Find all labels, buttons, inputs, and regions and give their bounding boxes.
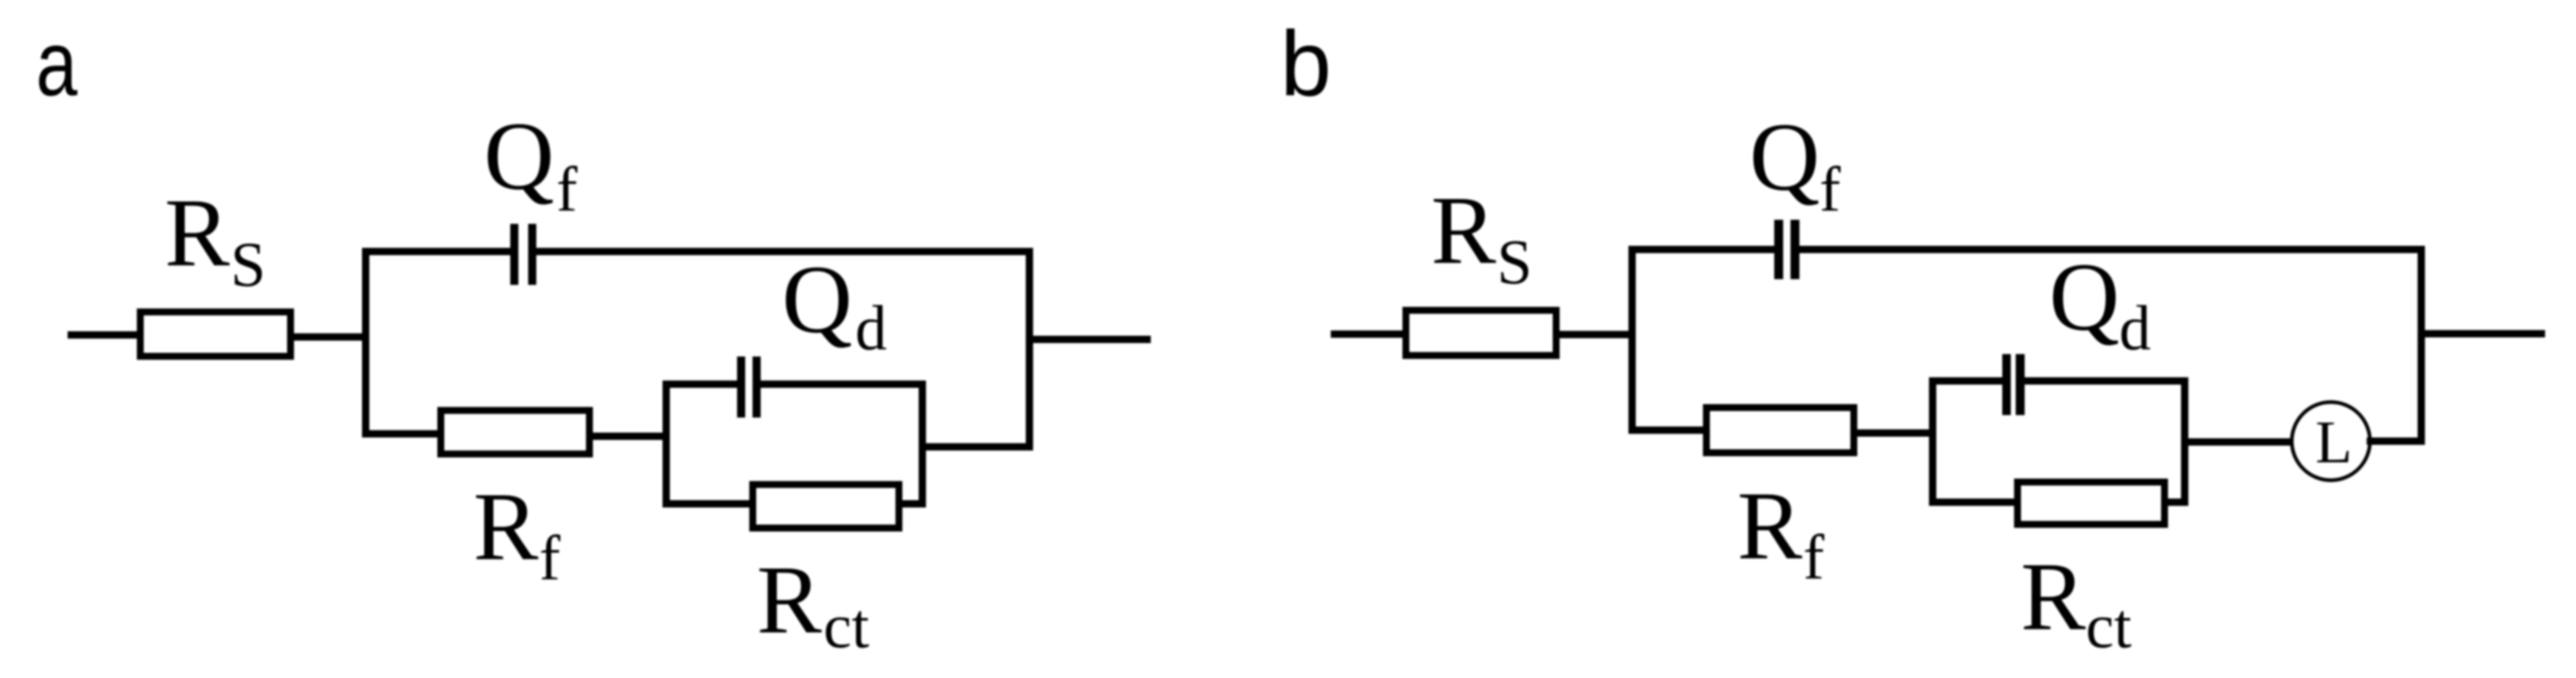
- wire inner cell bottom edge (panel b): [1929, 499, 2189, 506]
- svg-text:R: R: [1737, 471, 1802, 580]
- svg-text:ct: ct: [2086, 590, 2132, 661]
- panel label a: [36, 12, 77, 115]
- label Qf (panel b): [1749, 103, 1841, 225]
- wire inner cell bottom edge (panel a): [663, 501, 927, 508]
- wire inner cell top edge right segment (panel a): [761, 381, 927, 388]
- wire top branch right segment (panel b): [1800, 246, 2425, 253]
- label Rf (panel b): [1737, 471, 1824, 593]
- wire Rf to inner cell (panel a): [589, 433, 670, 440]
- capacitor Qf CPE (panel b): [1775, 220, 1800, 279]
- label RS (panel a): [165, 178, 265, 300]
- label Rct (panel b): [2021, 542, 2132, 661]
- capacitor Qd CPE (panel a): [737, 356, 761, 418]
- wire inner cell exit (panel a): [919, 444, 1033, 451]
- wire input terminal (panel a): [68, 331, 140, 339]
- wire RS to node (panel b): [1556, 331, 1636, 339]
- svg-text:f: f: [556, 154, 577, 225]
- label L inductor (panel b): [2315, 409, 2352, 476]
- svg-text:f: f: [1819, 154, 1841, 225]
- svg-text:Q: Q: [782, 245, 853, 353]
- panel label b: [1280, 12, 1332, 115]
- svg-text:R: R: [165, 178, 230, 287]
- svg-text:d: d: [855, 292, 887, 363]
- capacitor Qd CPE (panel b): [2003, 354, 2025, 415]
- label Qf (panel a): [484, 102, 577, 225]
- svg-text:d: d: [2119, 292, 2151, 363]
- svg-text:a: a: [36, 12, 77, 115]
- wire inner cell right vertical (panel b): [2181, 378, 2188, 506]
- wire left vertical branch node (panel b): [1629, 246, 1636, 434]
- svg-text:Q: Q: [1749, 103, 1820, 211]
- resistor RS (panel b): [1406, 310, 1556, 356]
- wire bottom branch from node (panel b): [1629, 426, 1707, 434]
- svg-text:S: S: [1497, 226, 1532, 297]
- wire top branch left segment (panel a): [362, 248, 511, 256]
- wire RS to node (panel a): [291, 334, 369, 341]
- svg-text:R: R: [757, 545, 822, 654]
- svg-text:ct: ct: [823, 590, 870, 661]
- svg-text:R: R: [2021, 542, 2086, 650]
- wire Rf to inner cell (panel b): [1854, 430, 1937, 437]
- wire inductor to right vertical (panel b): [2367, 438, 2425, 445]
- resistor RS (panel a): [140, 312, 291, 356]
- wire output terminal (panel a): [1029, 336, 1151, 343]
- wire inner cell top edge left segment (panel b): [1929, 378, 2003, 385]
- inductor L circle (panel b): [2292, 402, 2370, 480]
- label Qd (panel a): [782, 245, 887, 363]
- wire inner cell right vertical (panel a): [919, 381, 926, 508]
- wire top branch right segment (panel a): [537, 248, 1033, 256]
- wire inner cell top edge left segment (panel a): [663, 381, 738, 388]
- label Qd (panel b): [2049, 243, 2151, 363]
- svg-text:L: L: [2315, 409, 2352, 476]
- label Rf (panel a): [473, 472, 560, 593]
- svg-text:Q: Q: [484, 102, 555, 210]
- wire bottom branch from node (panel a): [362, 431, 441, 438]
- wire output terminal (panel b): [2421, 330, 2545, 338]
- svg-text:Q: Q: [2049, 243, 2120, 351]
- wire inner cell top edge right segment (panel b): [2025, 378, 2188, 385]
- wire top branch left segment (panel b): [1629, 246, 1775, 253]
- svg-text:f: f: [1803, 522, 1824, 593]
- label RS (panel b): [1431, 176, 1532, 297]
- capacitor Qf CPE (panel a): [511, 224, 537, 285]
- wire inner cell left vertical (panel b): [1929, 378, 1937, 506]
- wire right vertical branch node (panel b): [2418, 246, 2425, 445]
- wire inner cell left vertical (panel a): [663, 381, 670, 508]
- svg-text:f: f: [539, 523, 560, 593]
- wire inner cell exit to inductor (panel b): [2188, 439, 2295, 446]
- wire left vertical branch node (panel a): [362, 248, 370, 438]
- svg-text:R: R: [473, 472, 538, 580]
- resistor Rf (panel a): [441, 410, 590, 454]
- label Rct (panel a): [757, 545, 870, 661]
- wire input terminal (panel b): [1331, 330, 1406, 338]
- wire right vertical branch node (panel a): [1026, 248, 1033, 451]
- svg-text:R: R: [1431, 176, 1496, 284]
- resistor Rf (panel b): [1706, 408, 1854, 453]
- resistor Rct (panel b): [2017, 482, 2165, 524]
- svg-text:b: b: [1280, 12, 1332, 115]
- svg-text:S: S: [230, 229, 265, 300]
- resistor Rct (panel a): [753, 484, 899, 528]
